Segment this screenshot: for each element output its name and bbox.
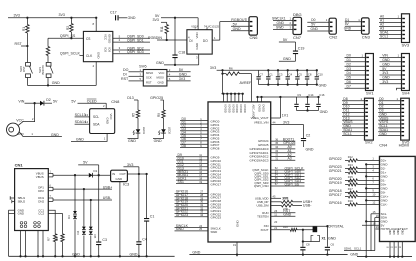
hdmi pin SCL: [371, 210, 387, 251]
ground wire cap rail: [259, 83, 327, 87]
svg-text:GND: GND: [277, 21, 285, 25]
svg-text:VREG_VIN: VREG_VIN: [254, 120, 269, 124]
svg-text:IOVDD: IOVDD: [227, 105, 231, 113]
svg-text:GND: GND: [116, 177, 124, 181]
wire A2 mcu: [250, 153, 296, 159]
capacitor C6 xtal: [300, 229, 310, 255]
svg-text:DI: DI: [123, 73, 127, 77]
svg-text:D1: D1: [94, 169, 98, 173]
ground rail left: [9, 252, 175, 257]
svg-text:3V3: 3V3: [179, 77, 185, 81]
switch SW2 RST: [19, 46, 33, 85]
wire VIN: [18, 99, 40, 104]
wire SV6 pin2 5V: [167, 68, 191, 72]
svg-text:GND: GND: [76, 137, 84, 141]
resistor R8: [55, 234, 64, 256]
wire D4 mcu: [180, 130, 220, 137]
wire SCL1 sv5: [378, 124, 401, 128]
svg-text:D5: D5: [93, 235, 97, 239]
wire GPIO25 mcu: [258, 141, 296, 147]
wire VIN sv4: [380, 54, 402, 58]
wire D2 mcu: [180, 124, 220, 131]
wire D1 mcu: [180, 120, 220, 127]
wire mcu gnd pin: [233, 242, 237, 256]
wire MISO1 mcu: [176, 170, 221, 177]
wire TESTEN: [257, 212, 295, 218]
wire D8 sv2: [342, 97, 365, 101]
wire 5V sv4: [380, 67, 402, 71]
svg-text:BOOT0: BOOT0: [41, 65, 45, 75]
wire QSPI_SCLK: [60, 52, 84, 56]
node 3V3 rail top-left: [8, 13, 97, 19]
svg-text:DVDD: DVDD: [258, 105, 262, 112]
svg-text:SBU2: SBU2: [18, 200, 26, 204]
wire XIN: [264, 220, 328, 228]
LED LED2: [153, 127, 172, 143]
svg-text:DO: DO: [123, 68, 129, 72]
svg-text:DO: DO: [203, 39, 208, 43]
node 5V rgb: [155, 14, 219, 30]
connector CN4 HDMI: [379, 143, 415, 242]
wire D4 sv1: [345, 71, 366, 75]
svg-text:R17: R17: [348, 187, 353, 191]
svg-text:GND: GND: [311, 27, 319, 31]
hdmi pin 8 GND: [365, 187, 388, 191]
svg-text:C7: C7: [259, 73, 263, 77]
wire D9 sv2: [342, 101, 365, 105]
wire IOVDD rail: [221, 70, 244, 102]
svg-text:R6: R6: [229, 66, 233, 70]
svg-text:GND: GND: [394, 229, 396, 234]
svg-text:USB+: USB+: [103, 185, 113, 189]
svg-text:GND: GND: [328, 237, 336, 241]
hdmi pin 4 D1+: [329, 167, 387, 175]
wire QSPI_SD2 mcu qspi: [254, 176, 304, 182]
wire GND sv2: [342, 124, 365, 128]
wire RGBOUT: [212, 18, 249, 40]
wire VBUS sv2: [342, 120, 365, 124]
wire QSPI_SCLK mcu qspi: [252, 166, 304, 172]
hdmi pin SDA: [375, 214, 388, 251]
hdmi shield pins: [386, 229, 404, 256]
wire D1 sv5: [378, 101, 401, 105]
svg-text:VREG_VOUT: VREG_VOUT: [251, 116, 269, 120]
svg-text:C10: C10: [318, 73, 324, 77]
regulator IC3: [111, 170, 130, 186]
wire D0 sv1: [345, 54, 366, 58]
connector SV6: [139, 64, 167, 87]
svg-text:C1: C1: [269, 73, 273, 77]
connector SV2: [361, 97, 374, 145]
wire GPIO18 mcu: [175, 196, 222, 203]
svg-text:SDA1: SDA1: [344, 247, 352, 251]
svg-text:5V: 5V: [179, 68, 184, 72]
LED LED1: [128, 127, 147, 143]
svg-text:SCL13: SCL13: [75, 113, 86, 117]
svg-text:GND: GND: [382, 58, 390, 62]
connector CN7 DBG: [293, 12, 302, 40]
connector SV3: [398, 14, 410, 48]
svg-text:R18: R18: [348, 191, 353, 195]
svg-text:C3: C3: [279, 73, 283, 77]
wire SWD mcu: [175, 227, 218, 234]
wire D7 mcu: [180, 141, 220, 148]
svg-text:DVDD: DVDD: [262, 105, 266, 112]
svg-text:RST: RST: [22, 66, 26, 72]
wire GND sv5: [378, 132, 401, 136]
svg-text:SV2: SV2: [365, 140, 373, 145]
svg-text:GND: GND: [236, 220, 240, 228]
svg-text:GPIO23: GPIO23: [211, 216, 222, 220]
wire GND sv4: [380, 58, 402, 62]
hdmi pin 10 CLK+: [329, 191, 389, 199]
wire hdmi ddc: [344, 247, 375, 251]
svg-text:13: 13: [85, 113, 89, 117]
svg-text:RST: RST: [15, 42, 23, 46]
svg-text:CN3: CN3: [362, 34, 371, 39]
connector CN1 USB-C: [15, 163, 49, 231]
wire sv4 pin8 stub: [397, 88, 402, 90]
wire CN1 gnd left: [9, 210, 15, 256]
wire BOOT1 mcu: [258, 137, 295, 143]
wire GPIO23 mcu: [175, 213, 222, 220]
svg-text:C6: C6: [331, 243, 335, 247]
svg-text:R11: R11: [160, 26, 164, 32]
svg-text:SCL1: SCL1: [343, 132, 352, 136]
svg-text:R10: R10: [283, 225, 288, 229]
rgb driver IC2: [187, 26, 212, 54]
svg-text:CLK-: CLK-: [381, 203, 388, 207]
svg-text:C4: C4: [289, 73, 293, 77]
svg-text:GPIO16: GPIO16: [329, 201, 342, 205]
connector CN6: [246, 17, 259, 40]
wire 5V oled: [71, 99, 120, 109]
svg-text:SWD: SWD: [211, 230, 218, 234]
svg-text:C8: C8: [308, 73, 312, 77]
wire GPIO25 led: [150, 96, 163, 110]
svg-text:IC3: IC3: [123, 182, 130, 187]
svg-text:74LVC1G125: 74LVC1G125: [204, 26, 220, 29]
capacitor C2: [301, 125, 314, 152]
svg-text:X1: X1: [322, 237, 326, 241]
svg-text:VCC: VCC: [159, 71, 165, 75]
wire D7 sv1: [345, 84, 366, 88]
wire D13 sv2: [342, 116, 365, 120]
wire CN1 shield pins: [21, 231, 44, 257]
svg-text:GND: GND: [52, 81, 60, 85]
svg-text:A3: A3: [288, 157, 292, 161]
svg-text:GND: GND: [390, 229, 392, 234]
svg-text:D2: D2: [46, 98, 51, 102]
svg-text:SV4: SV4: [402, 91, 410, 96]
wire A2 sv3: [379, 23, 402, 27]
svg-text:C9: C9: [297, 93, 301, 97]
svg-text:QSPI_CSN: QSPI_CSN: [254, 184, 269, 188]
svg-text:GND: GND: [97, 52, 101, 58]
svg-text:CC2: CC2: [38, 212, 44, 216]
diode D3 esd: [67, 175, 77, 256]
node RST: [15, 42, 29, 47]
wire D3 sv5: [378, 109, 401, 113]
capacitor C1: [144, 174, 154, 256]
svg-text:C5: C5: [298, 73, 302, 77]
wire CC2 R8: [48, 214, 62, 234]
barrel jack CN9: [7, 123, 20, 136]
svg-text:27R: 27R: [283, 196, 288, 200]
wire rgb gnd pin: [196, 54, 199, 65]
wire SV6 pin5 RST: [121, 77, 143, 81]
wire VBUS bracket: [48, 171, 76, 177]
svg-text:GPIO29/ADC3: GPIO29/ADC3: [250, 158, 269, 162]
capacitor C1: [266, 69, 273, 84]
wire D6 sv1: [345, 80, 366, 84]
svg-text:GND: GND: [130, 252, 138, 256]
svg-text:SV3: SV3: [402, 43, 410, 48]
wire GND sv4: [380, 62, 402, 66]
capacitor C14: [305, 93, 314, 111]
wire VBUS sv5: [378, 116, 401, 120]
switch SW1 BOOT: [38, 63, 53, 86]
svg-text:IN: IN: [112, 172, 115, 176]
capacitor C5: [295, 69, 302, 84]
svg-text:C4: C4: [142, 238, 147, 242]
svg-text:5V: 5V: [233, 22, 238, 26]
wire D13 mcu: [176, 166, 221, 173]
hdmi pin 5V: [362, 221, 385, 227]
svg-text:RST: RST: [146, 80, 152, 84]
svg-text:IOVDD: IOVDD: [224, 105, 228, 113]
svg-text:3V3: 3V3: [382, 71, 388, 75]
wire jack GND pin1: [17, 132, 62, 137]
svg-text:GND: GND: [154, 139, 162, 143]
wire QSPI_SS: [48, 34, 83, 38]
svg-text:D3: D3: [67, 215, 71, 219]
capacitor C3: [96, 175, 107, 256]
capacitor C18: [172, 18, 185, 66]
svg-text:D6: D6: [347, 80, 351, 84]
svg-text:GND: GND: [179, 73, 187, 77]
resistor R13 usb dp: [257, 196, 312, 204]
wire D12 mcu: [176, 163, 221, 170]
svg-text:3V3: 3V3: [210, 66, 216, 70]
wire A3 sv3: [379, 27, 402, 31]
svg-text:GPIO17: GPIO17: [211, 182, 222, 186]
svg-text:GPIO17: GPIO17: [329, 193, 342, 197]
wire SCL1 sv3: [379, 35, 402, 39]
wire QSPI_SD2 flash: [113, 46, 150, 50]
svg-text:DBG: DBG: [293, 12, 302, 17]
wire SWCLK cn7: [272, 17, 293, 21]
wire SDA1 sv2: [342, 128, 365, 132]
svg-text:GND: GND: [233, 27, 241, 31]
svg-text:GND: GND: [402, 229, 404, 234]
svg-text:QSPI_SS: QSPI_SS: [60, 34, 76, 38]
wire D0 cn2: [307, 18, 329, 22]
wire SWCLK mcu: [175, 224, 221, 231]
svg-text:GND: GND: [192, 250, 200, 254]
svg-text:CS: CS: [86, 37, 90, 41]
ground rail flash: [27, 81, 96, 86]
diode D2: [40, 98, 58, 106]
wire D3 mcu: [180, 127, 220, 134]
svg-text:SCL: SCL: [93, 115, 99, 119]
svg-text:QSPI_SS: QSPI_SS: [285, 182, 300, 186]
svg-text:R7: R7: [47, 237, 51, 241]
hdmi pin 5 GND: [365, 175, 388, 179]
svg-text:QSPI_SCLK: QSPI_SCLK: [60, 52, 81, 56]
wire GND sv4: [380, 76, 402, 80]
svg-text:IOVDD: IOVDD: [235, 105, 239, 113]
svg-text:MISO: MISO: [146, 71, 154, 75]
wire A3 mcu: [250, 157, 296, 163]
svg-text:D13: D13: [127, 96, 134, 100]
wire D9 mcu: [176, 153, 220, 160]
wire QSPI_SD3 flash: [113, 50, 150, 54]
wire GPIO19 mcu: [175, 200, 222, 207]
diode D4 esd: [76, 189, 86, 256]
wire CN1 sbu stub: [10, 196, 14, 203]
svg-text:IO3: IO3: [107, 48, 111, 53]
svg-text:CN6: CN6: [250, 35, 259, 40]
resistor R14 usb dm: [256, 204, 312, 211]
svg-text:3V3: 3V3: [382, 80, 388, 84]
svg-text:5V: 5V: [71, 99, 76, 103]
wire SV6 pin6 3V3: [167, 77, 191, 81]
connector CN3: [362, 18, 371, 39]
wire D13 led: [127, 96, 138, 110]
svg-text:DI: DI: [189, 39, 192, 43]
wire D10 mcu: [176, 156, 221, 163]
svg-text:TESTEN: TESTEN: [257, 214, 268, 218]
svg-text:GPIO22: GPIO22: [329, 157, 342, 161]
svg-text:HDMI: HDMI: [399, 143, 409, 148]
svg-text:C8: C8: [306, 243, 310, 247]
wire GPIO22 mcu: [175, 210, 222, 217]
svg-text:CLK: CLK: [86, 54, 93, 58]
svg-text:LED2: LED2: [168, 127, 172, 135]
svg-text:XOUT: XOUT: [260, 228, 268, 232]
svg-text:USB-: USB-: [303, 204, 312, 208]
node 3V3 mcu: [210, 66, 259, 71]
svg-text:3V3: 3V3: [153, 18, 159, 22]
wire USB+ usbc: [48, 184, 112, 190]
wire jack VCC pin2: [16, 103, 34, 125]
svg-text:GND: GND: [350, 253, 358, 257]
crystal X1: [302, 225, 344, 243]
resistor R9: [157, 110, 165, 129]
wire IC3 gnd: [119, 182, 121, 257]
svg-text:OUT: OUT: [120, 172, 127, 176]
svg-text:1V1: 1V1: [282, 114, 288, 118]
mcu U1 RP2040: [208, 102, 271, 242]
svg-text:MOSI: MOSI: [157, 76, 164, 80]
svg-text:USB_DM: USB_DM: [256, 204, 269, 208]
svg-text:14: 14: [85, 120, 89, 124]
wire GND cn7: [273, 21, 293, 25]
wire GPIO16 mcu: [175, 190, 222, 197]
svg-text:R5: R5: [132, 113, 136, 117]
svg-text:D4: D4: [76, 230, 80, 234]
svg-text:IOVDD: IOVDD: [243, 105, 247, 113]
svg-text:GND: GND: [128, 16, 136, 20]
svg-text:IOVDD: IOVDD: [107, 34, 111, 43]
capacitor C10: [315, 69, 324, 84]
svg-text:C14: C14: [308, 93, 314, 97]
resistor R10 xout: [260, 225, 315, 232]
resistor R6: [221, 66, 251, 75]
resistor R1: [22, 18, 29, 46]
wire IC3 out 3V3: [123, 163, 147, 175]
svg-text:R13: R13: [348, 163, 353, 167]
svg-text:GND: GND: [283, 57, 291, 61]
wire VREG_VIN 3V3: [254, 120, 304, 124]
svg-text:3V3: 3V3: [59, 13, 65, 17]
diode D5 esd: [89, 200, 97, 256]
wire QSPI_SD0 mcu qspi: [254, 169, 304, 175]
wire D10 sv2: [342, 105, 365, 109]
svg-text:R1: R1: [22, 27, 26, 31]
wire D1 cn3: [345, 18, 362, 22]
wire SS1 mcu: [176, 180, 221, 187]
wire SCL1 sv2: [342, 132, 365, 136]
wire D11 mcu: [176, 160, 221, 167]
svg-text:CN7: CN7: [293, 35, 302, 40]
capacitor C8: [305, 69, 312, 84]
resistor R7: [47, 234, 57, 256]
wire QSPI_SD3 mcu qspi: [254, 179, 304, 185]
svg-text:R2: R2: [66, 26, 70, 30]
wire QSPI_SD1 flash: [113, 38, 150, 42]
wire MOSI1 mcu: [176, 173, 221, 180]
svg-text:GND: GND: [51, 133, 59, 137]
wire DVDD rail 1V1: [256, 96, 318, 102]
svg-text:GPIO19: GPIO19: [329, 181, 342, 185]
wire RUN RST: [262, 209, 295, 215]
wire A0 mcu: [250, 145, 296, 151]
svg-text:R9: R9: [157, 113, 161, 117]
hdmi pin 3 D2-: [329, 163, 386, 171]
svg-text:3V3: 3V3: [283, 121, 289, 125]
svg-text:CN8: CN8: [111, 99, 120, 104]
svg-text:GND: GND: [158, 80, 164, 84]
svg-text:GND: GND: [18, 212, 24, 216]
svg-text:D1: D1: [345, 18, 349, 22]
svg-text:C3: C3: [102, 238, 107, 242]
wire SDA1 sv5: [378, 128, 401, 132]
svg-text:5V: 5V: [283, 38, 288, 42]
svg-text:DN2: DN2: [38, 200, 44, 204]
capacitor C3: [276, 69, 283, 84]
capacitor C16: [316, 93, 325, 111]
svg-text:D5: D5: [347, 76, 351, 80]
svg-text:GPIO8: GPIO8: [211, 147, 220, 151]
wire 5V cn3: [345, 22, 362, 26]
capacitor C7 xtal: [325, 226, 335, 254]
svg-text:GND: GND: [320, 110, 328, 114]
hdmi pin 6 D1-: [329, 175, 386, 183]
wire SCK1 mcu: [176, 176, 221, 183]
wire CC1 R7: [48, 210, 55, 234]
wire SWD cn7: [273, 25, 293, 29]
svg-text:VBUS: VBUS: [36, 175, 44, 179]
wire D5 mcu: [180, 134, 220, 141]
svg-text:SCL1: SCL1: [354, 247, 362, 251]
svg-text:GPIO25: GPIO25: [150, 96, 163, 100]
svg-text:SDA: SDA: [93, 123, 100, 127]
svg-text:C16: C16: [319, 93, 325, 97]
resistor R3 boot: [46, 38, 49, 62]
wire GPIO21 mcu: [175, 206, 222, 213]
